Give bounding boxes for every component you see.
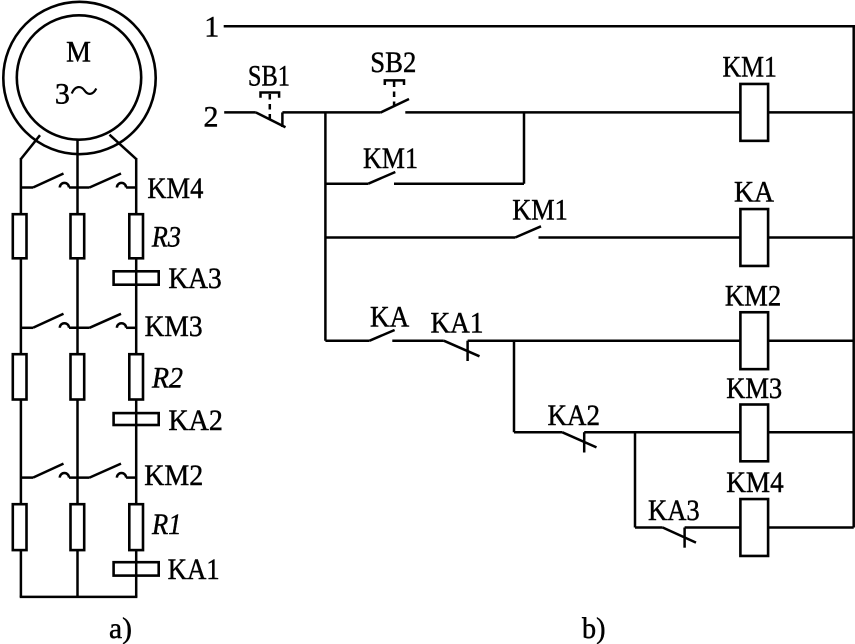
wire junction vertical to KM3 rung [513,341,516,433]
KM2 row end wire [126,476,136,479]
SB1 actuator head [261,93,280,98]
wire self-hold vertical to line 2 [523,112,526,183]
contactor coil KM3 [740,405,768,462]
contact KA2 NC blade [562,432,596,447]
KM3 blade 2 [90,314,122,328]
wire phase U vertical to R3 [20,158,23,214]
svg-text:M: M [66,36,91,69]
wire phase U R1 to star point [20,550,23,597]
contactor KM2 contacts row: stub [21,476,33,479]
svg-text:R3: R3 [151,221,181,254]
pushbutton SB2 blade [380,99,409,113]
wire KA rung right [539,236,741,239]
svg-text:KA3: KA3 [648,494,700,527]
wire KM4 rung to coil [685,526,740,529]
SB2 actuator dashed rod [393,82,396,107]
svg-text:KA3: KA3 [168,262,221,295]
contactor coil KM4 [740,499,768,556]
motor M inner circle [17,15,141,139]
wire KM3 coil to bus [769,431,854,434]
wire self-hold rung right [394,182,524,185]
KM4 fixed contact arc 1 [60,183,69,188]
svg-text:KA1: KA1 [168,553,220,586]
KA1 NC tick [466,341,469,361]
KM3 blade 1 [33,314,64,328]
KM4 fixed contact arc 2 [117,183,126,188]
KA3 NC tick [683,528,686,548]
svg-text:KM4: KM4 [726,466,784,499]
KM4 blade 2 [90,174,122,188]
wire line 2 start [224,111,256,114]
KM2 blade 1 [33,464,64,478]
resistor R1 phase V [71,504,85,550]
svg-text:2: 2 [204,100,219,133]
KM2 row mid wire [69,476,90,479]
wire self-hold rung left [325,182,368,185]
motor M outer circle [3,2,155,154]
svg-text:a): a) [109,612,132,644]
KM2 blade 2 [90,464,122,478]
contact KM1 self-hold blade [368,172,395,184]
wire junction vertical after SB1 [324,112,327,340]
wire phase U R3 to KM3 row [20,259,23,354]
resistor R3 phase V [71,214,85,258]
contact KA1 NC blade [444,341,480,357]
svg-text:SB2: SB2 [370,46,416,79]
wire KM2 rung to coil [468,339,740,342]
wire KM1 coil to bus [769,111,854,114]
svg-text:KM1: KM1 [512,194,568,227]
resistor R2 phase V [71,354,85,399]
wire KM4 coil to bus [769,526,854,529]
svg-text:3: 3 [55,77,70,110]
KA2 NC tick [583,432,586,452]
wire phase W R3 through KA3 [135,259,138,354]
svg-text:KA2: KA2 [548,399,601,432]
wire phase W R1 through KA1 [135,550,138,597]
SB1 actuator dashed rod [269,94,272,120]
wire phase W vertical to R3 [135,158,138,214]
wire KM4 rung left [635,526,663,529]
wire phase V R3 to KM3 row [76,259,79,354]
svg-text:KA: KA [370,300,409,333]
wire junction vertical to KM4 rung [634,432,637,527]
wire phase V vertical from motor [76,140,79,214]
contact KM1 on KA rung blade [515,226,541,237]
star point bus wire [20,596,138,599]
resistor R2 phase W [129,354,143,399]
wire KA rung left [325,236,515,239]
svg-text:KM2: KM2 [725,279,781,312]
resistor R1 phase W [129,504,143,550]
wire phase V R2 to KM2 row [76,400,79,504]
current relay KA2 coil [114,413,159,425]
wire KA coil to bus [769,236,854,239]
wire KM3 rung left [514,431,562,434]
KM2 fixed contact arc 2 [117,473,126,478]
KM3 fixed contact arc 1 [60,323,69,328]
wire right bus [852,26,855,527]
SB1 fixed contact tick [281,112,284,127]
contactor KM4 main contacts row: stub [21,186,33,189]
svg-text:1: 1 [204,10,219,43]
wire line 2 SB2 to KM1 coil [405,111,740,114]
KM2 fixed contact arc 1 [60,473,69,478]
KM3 fixed contact arc 2 [117,323,126,328]
wire phase W slant from motor [110,135,137,159]
svg-text:KA: KA [734,176,774,209]
resistor R3 phase U [13,214,27,258]
svg-text:KA1: KA1 [431,307,484,340]
KM3 row end wire [126,327,136,330]
contact KA blade [370,330,395,341]
contactor coil KM2 [740,312,768,369]
wire phase W R2 through KA2 [135,400,138,504]
pushbutton SB1 blade [256,112,286,127]
KM4 row mid wire [69,186,90,189]
resistor R3 phase W [129,214,143,258]
KM3 row mid wire [69,327,90,330]
svg-text:KM4: KM4 [147,172,203,205]
KM4 row end wire [126,186,136,189]
wire phase V R1 to star point [76,550,79,597]
contactor KM3 contacts row: stub [21,327,33,330]
svg-text:KM2: KM2 [144,459,203,492]
contactor coil KM1 [740,84,768,141]
wire line 2 between SB1 and SB2 [282,111,380,114]
wire KM2 rung between KA and KA1 [392,339,444,342]
wire line 1 [224,25,855,28]
current relay KA1 coil [114,562,159,575]
svg-text:KM3: KM3 [145,310,203,343]
wire phase U slant from motor [21,135,40,159]
contact KA3 NC blade [663,528,696,543]
KM4 blade 1 [33,174,64,188]
wire KM2 coil to bus [769,339,854,342]
svg-text:SB1: SB1 [248,60,290,93]
svg-text:R2: R2 [151,361,183,394]
current relay KA3 coil [114,271,159,284]
svg-text:KM1: KM1 [723,50,777,83]
resistor R2 phase U [13,354,27,399]
SB2 actuator head [385,80,404,85]
motor label tilde [72,87,97,94]
relay coil KA [740,209,768,266]
wire KM2 rung start [325,339,369,342]
svg-text:KA2: KA2 [168,404,223,437]
svg-text:KM1: KM1 [363,142,418,175]
resistor R1 phase U [13,504,27,550]
svg-text:b): b) [582,612,606,644]
svg-text:R1: R1 [151,508,181,541]
wire phase U R2 to KM2 row [20,400,23,504]
wire KM3 rung to coil [584,431,740,434]
svg-text:KM3: KM3 [726,372,782,405]
